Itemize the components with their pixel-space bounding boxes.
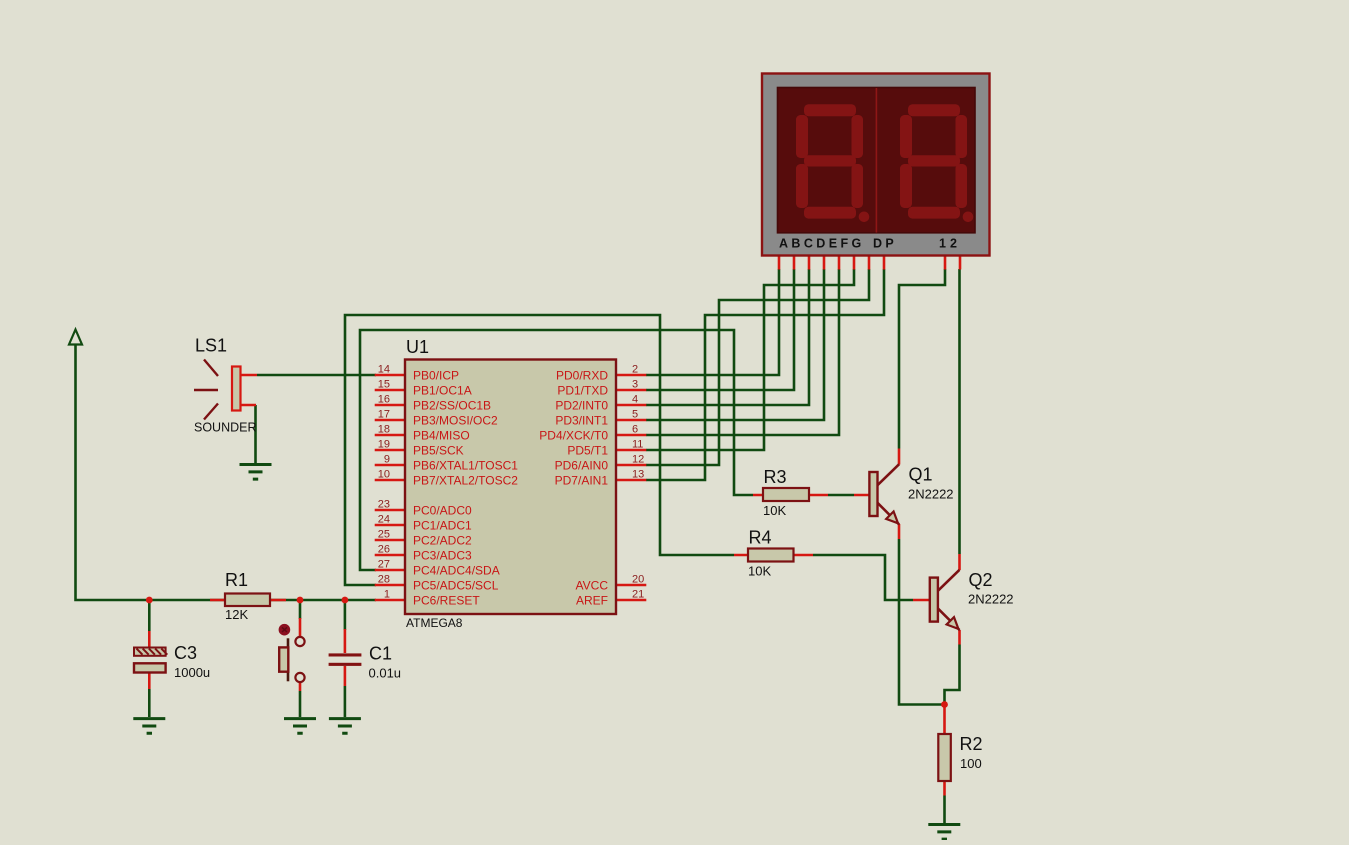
svg-text:10K: 10K [763, 503, 786, 518]
svg-text:10K: 10K [748, 564, 771, 579]
svg-text:100: 100 [960, 756, 982, 771]
svg-text:R2: R2 [960, 734, 983, 754]
svg-text:9: 9 [384, 454, 390, 466]
svg-text:PD4/XCK/T0: PD4/XCK/T0 [539, 428, 608, 442]
svg-text:1000u: 1000u [174, 665, 210, 680]
svg-text:PB4/MISO: PB4/MISO [413, 428, 470, 442]
svg-text:PB7/XTAL2/TOSC2: PB7/XTAL2/TOSC2 [413, 473, 518, 487]
svg-text:27: 27 [378, 559, 390, 571]
svg-text:6: 6 [632, 424, 638, 436]
svg-text:3: 3 [632, 379, 638, 391]
svg-text:18: 18 [378, 424, 390, 436]
svg-text:U1: U1 [406, 337, 429, 357]
svg-text:DP: DP [873, 236, 897, 250]
svg-text:PC1/ADC1: PC1/ADC1 [413, 518, 472, 532]
svg-text:AVCC: AVCC [576, 578, 609, 592]
svg-text:PD1/TXD: PD1/TXD [557, 383, 608, 397]
svg-text:12: 12 [632, 454, 644, 466]
svg-text:0.01u: 0.01u [369, 666, 402, 681]
svg-text:15: 15 [378, 379, 390, 391]
svg-text:17: 17 [378, 409, 390, 421]
svg-text:Q1: Q1 [909, 465, 933, 485]
svg-text:13: 13 [632, 469, 644, 481]
svg-text:1: 1 [384, 589, 390, 601]
svg-text:PD2/INT0: PD2/INT0 [555, 398, 608, 412]
svg-text:PB6/XTAL1/TOSC1: PB6/XTAL1/TOSC1 [413, 458, 518, 472]
svg-text:ABCDEFG: ABCDEFG [779, 236, 865, 250]
svg-text:PD6/AIN0: PD6/AIN0 [555, 458, 609, 472]
svg-text:12: 12 [939, 236, 961, 250]
svg-text:ATMEGA8: ATMEGA8 [406, 616, 463, 630]
svg-text:2N2222: 2N2222 [908, 487, 954, 502]
svg-text:LS1: LS1 [195, 336, 227, 356]
svg-text:23: 23 [378, 499, 390, 511]
svg-text:SOUNDER: SOUNDER [194, 421, 257, 435]
svg-text:26: 26 [378, 544, 390, 556]
svg-text:PB5/SCK: PB5/SCK [413, 443, 464, 457]
svg-text:R4: R4 [749, 528, 772, 548]
svg-text:12K: 12K [225, 607, 248, 622]
svg-text:Q2: Q2 [969, 570, 993, 590]
svg-text:PD5/T1: PD5/T1 [567, 443, 608, 457]
svg-text:AREF: AREF [576, 593, 608, 607]
svg-text:25: 25 [378, 529, 390, 541]
svg-text:C1: C1 [369, 644, 392, 664]
svg-text:2N2222: 2N2222 [968, 592, 1014, 607]
svg-text:4: 4 [632, 394, 638, 406]
svg-text:21: 21 [632, 589, 644, 601]
svg-text:PC0/ADC0: PC0/ADC0 [413, 503, 472, 517]
svg-text:5: 5 [632, 409, 638, 421]
svg-text:PD0/RXD: PD0/RXD [556, 368, 608, 382]
svg-text:R3: R3 [764, 467, 787, 487]
svg-text:16: 16 [378, 394, 390, 406]
svg-text:19: 19 [378, 439, 390, 451]
svg-text:PB2/SS/OC1B: PB2/SS/OC1B [413, 398, 491, 412]
svg-text:10: 10 [378, 469, 390, 481]
svg-text:PC2/ADC2: PC2/ADC2 [413, 533, 472, 547]
svg-text:11: 11 [632, 439, 643, 451]
svg-text:PC4/ADC4/SDA: PC4/ADC4/SDA [413, 563, 500, 577]
svg-text:R1: R1 [225, 570, 248, 590]
svg-text:PB3/MOSI/OC2: PB3/MOSI/OC2 [413, 413, 498, 427]
svg-text:20: 20 [632, 574, 644, 586]
svg-text:C3: C3 [174, 643, 197, 663]
svg-text:14: 14 [378, 364, 390, 376]
svg-text:PD7/AIN1: PD7/AIN1 [555, 473, 609, 487]
svg-text:PC5/ADC5/SCL: PC5/ADC5/SCL [413, 578, 499, 592]
svg-text:PB0/ICP: PB0/ICP [413, 368, 459, 382]
svg-text:28: 28 [378, 574, 390, 586]
svg-text:PB1/OC1A: PB1/OC1A [413, 383, 472, 397]
svg-text:PC3/ADC3: PC3/ADC3 [413, 548, 472, 562]
svg-text:PC6/RESET: PC6/RESET [413, 593, 480, 607]
svg-text:2: 2 [632, 364, 638, 376]
svg-text:24: 24 [378, 514, 390, 526]
svg-text:PD3/INT1: PD3/INT1 [555, 413, 608, 427]
